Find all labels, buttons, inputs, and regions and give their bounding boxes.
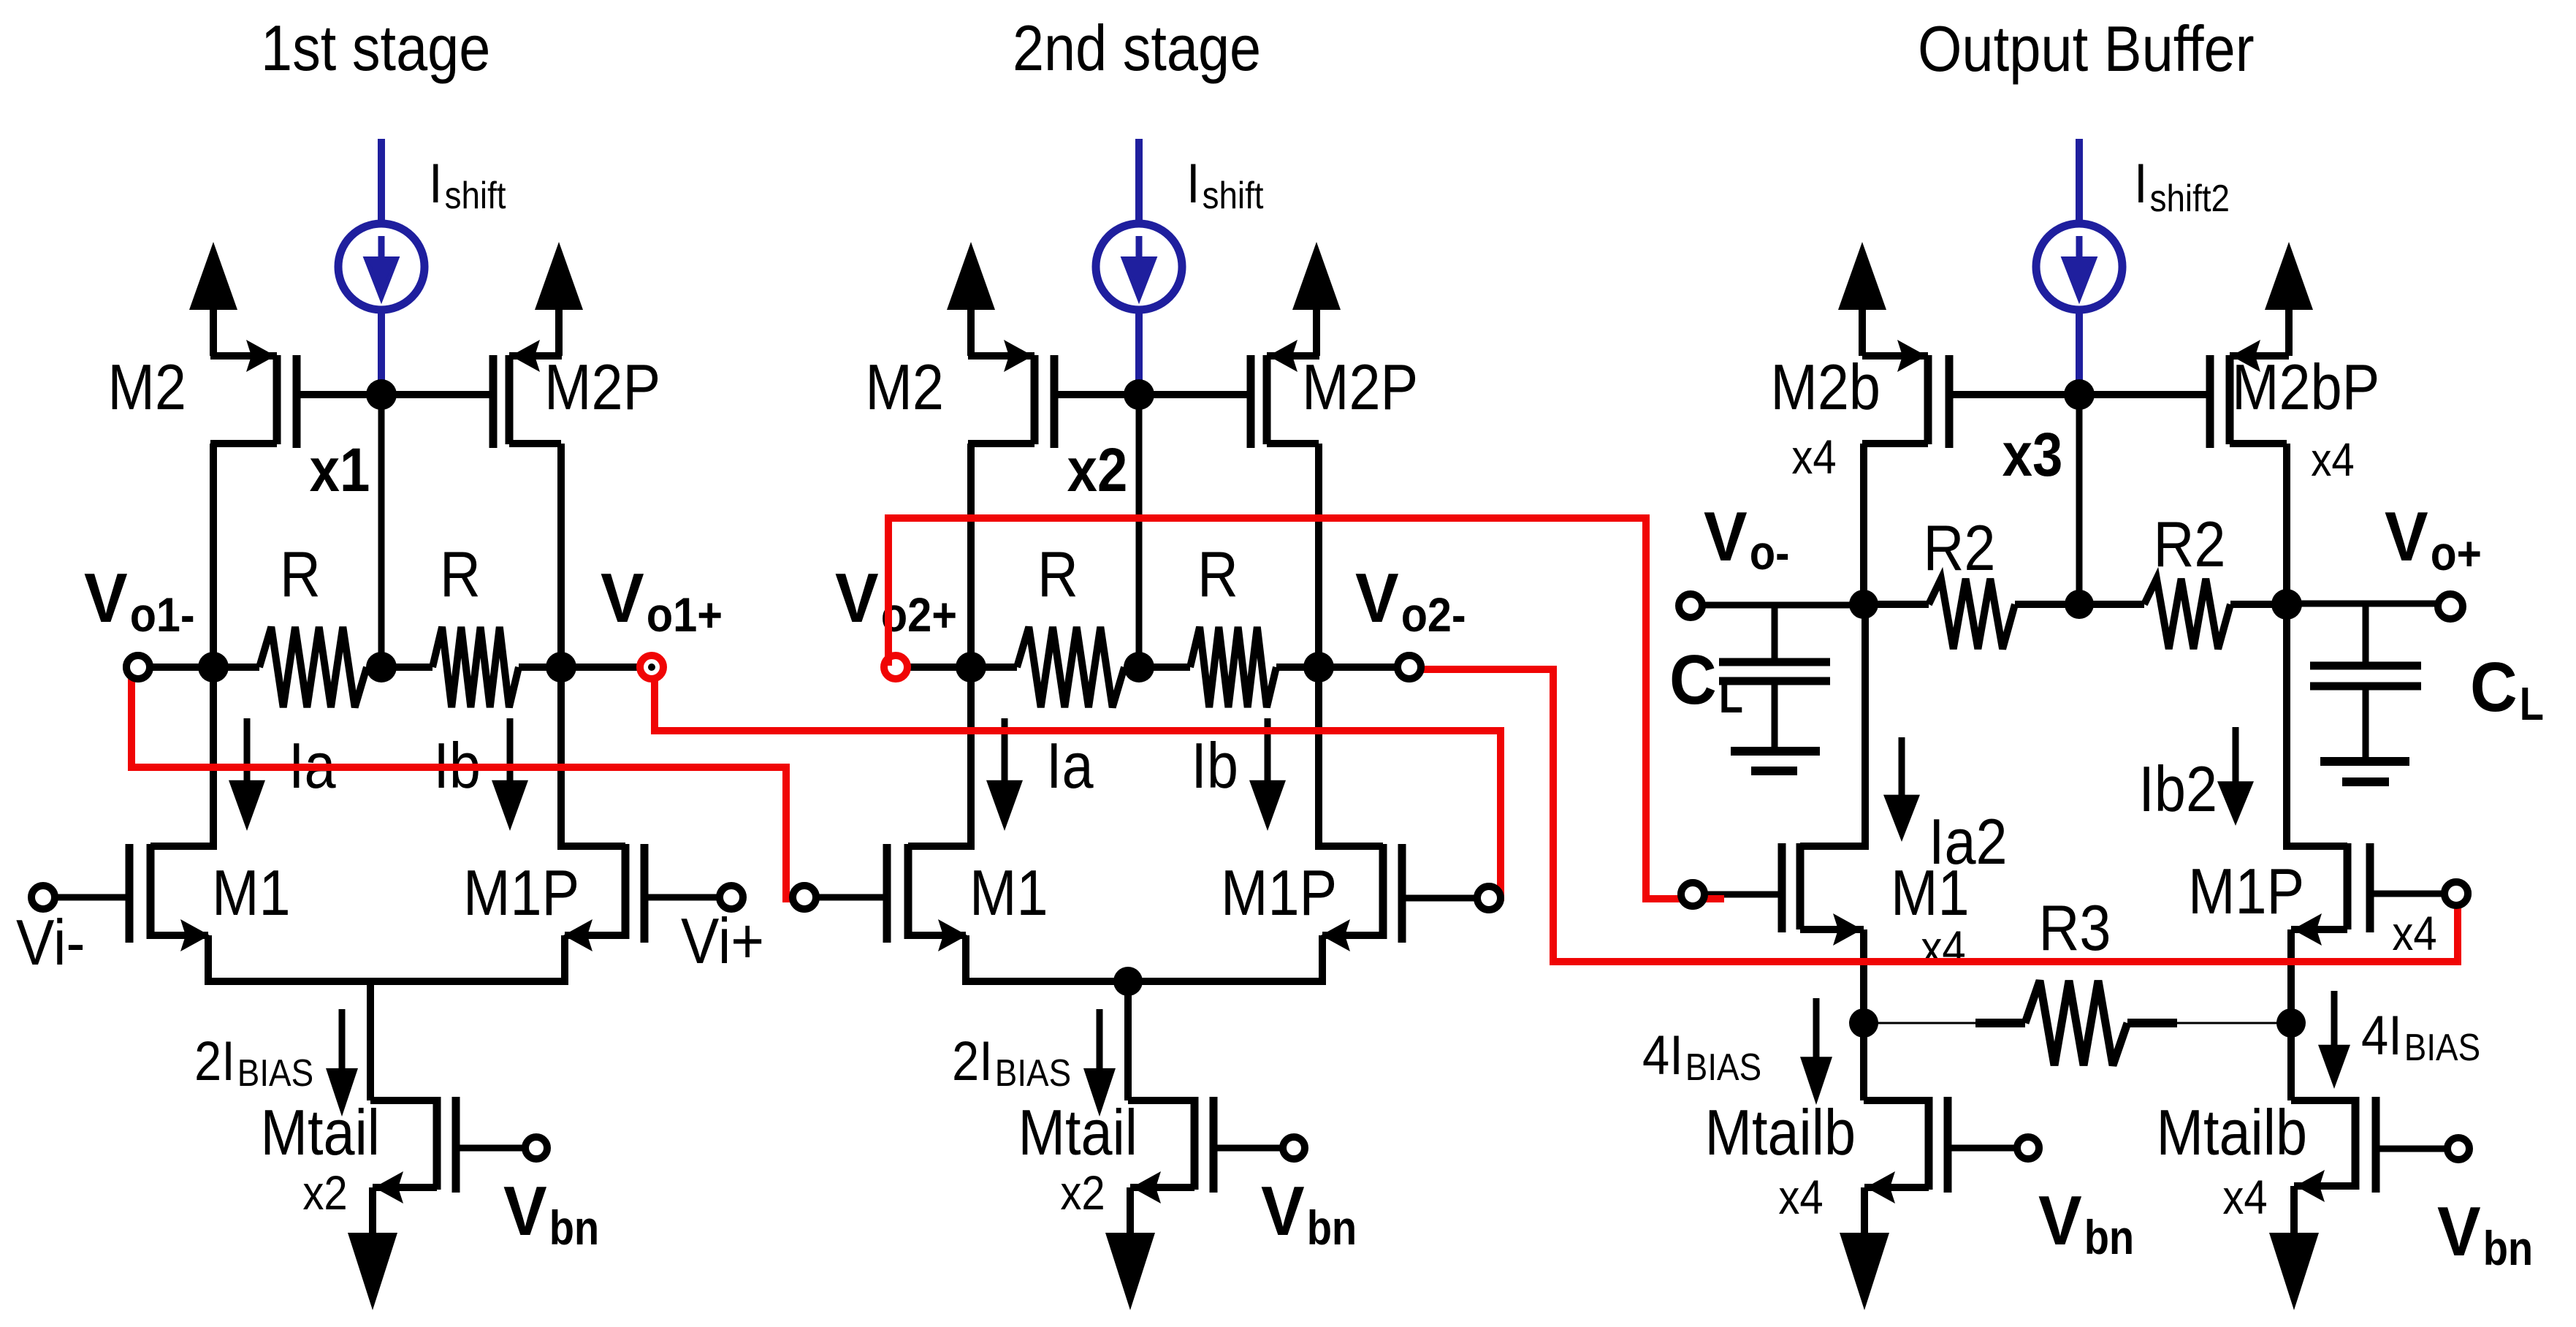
wire left rail down — [210, 667, 217, 850]
terminal Vo- — [1679, 594, 1864, 617]
svg-text:1st stage: 1st stage — [261, 12, 490, 84]
wire tail left (buffer) — [1864, 1023, 1929, 1100]
label Ib — [1191, 729, 1238, 802]
resistor R2 (right) — [2079, 579, 2287, 649]
svg-text:V: V — [1261, 1172, 1305, 1250]
svg-text:V: V — [503, 1172, 547, 1250]
resistor R (left) — [213, 627, 381, 707]
label Ia2 — [1929, 805, 2008, 878]
svg-text:x4: x4 — [2392, 906, 2436, 960]
label Vo2- — [1355, 559, 1466, 642]
wire tail right (buffer) — [2291, 1023, 2355, 1100]
capacitor CL (left) — [1719, 604, 1830, 751]
svg-text:L: L — [1719, 670, 1743, 723]
wire node to resistor tap — [378, 395, 385, 667]
label M1 — [969, 856, 1048, 929]
supply arrow right (M2P) — [1292, 242, 1341, 356]
label x4 (M2b) — [1791, 430, 1836, 484]
gate rail wire — [1054, 391, 1251, 398]
resistor R3 — [1864, 981, 2291, 1065]
label Vo1+ — [601, 559, 723, 642]
label Ia — [289, 729, 336, 802]
supply arrow right (M2P) — [535, 242, 583, 356]
terminal Vo1+ — [561, 655, 663, 679]
svg-text:shift2: shift2 — [2150, 178, 2230, 220]
transistor M2P — [493, 340, 562, 667]
svg-text:R: R — [1197, 538, 1238, 610]
svg-text:x2: x2 — [1067, 436, 1128, 504]
wire Vo2+ to buffer left input (red) — [888, 518, 1724, 906]
svg-text:M1P: M1P — [1221, 856, 1337, 929]
transistor M1 (buffer) — [1782, 843, 1865, 1023]
terminal Vo1- — [126, 655, 213, 679]
label Ib2 — [2138, 753, 2217, 825]
svg-text:2I: 2I — [194, 1030, 235, 1092]
svg-text:M1: M1 — [1891, 856, 1970, 929]
label M2P — [544, 351, 660, 423]
label R right — [440, 538, 481, 610]
label Vo- — [1704, 498, 1789, 579]
title 2nd stage — [1013, 12, 1261, 84]
svg-text:2nd stage: 2nd stage — [1013, 12, 1261, 84]
svg-text:V: V — [2038, 1182, 2082, 1260]
svg-text:R: R — [280, 538, 321, 610]
current arrow 4IBIAS (right) — [2318, 991, 2350, 1089]
label Vi- — [16, 906, 85, 978]
svg-text:x2: x2 — [302, 1166, 347, 1220]
svg-text:x4: x4 — [1921, 921, 1965, 975]
transistor M2 — [210, 340, 297, 667]
label R3 — [2039, 891, 2111, 964]
svg-text:M2: M2 — [107, 351, 186, 423]
svg-text:Ib2: Ib2 — [2138, 753, 2217, 825]
label 2IBIAS — [952, 1030, 1071, 1095]
node M1 source (buffer) — [1849, 1008, 1878, 1038]
label x1 — [310, 436, 370, 504]
svg-text:o1-: o1- — [130, 588, 195, 642]
node Vo+ rail junction — [2271, 589, 2302, 620]
svg-text:Mtail: Mtail — [261, 1096, 381, 1168]
transistor M2 — [968, 340, 1054, 667]
gate rail wire — [297, 391, 493, 398]
current arrow Ia2 — [1883, 737, 1920, 842]
label CL (right) — [2470, 648, 2544, 730]
svg-text:x2: x2 — [1060, 1166, 1105, 1220]
svg-text:o1+: o1+ — [647, 588, 723, 642]
svg-text:o-: o- — [1750, 525, 1790, 579]
node M1P source (buffer) — [2276, 1008, 2306, 1038]
transistor M1 — [129, 844, 213, 981]
svg-text:o2-: o2- — [1401, 588, 1466, 642]
wire Vo2- to buffer right input (red) — [1398, 655, 2468, 962]
svg-text:o+: o+ — [2431, 526, 2482, 580]
svg-text:Mtailb: Mtailb — [2157, 1096, 2308, 1168]
supply arrow left (M2b) — [1838, 242, 1886, 356]
ground arrow (buffer left) — [1840, 1233, 1889, 1310]
svg-text:bn: bn — [1307, 1201, 1357, 1255]
svg-text:I: I — [429, 153, 443, 215]
terminal input right (buffer) — [2370, 882, 2468, 905]
svg-text:shift: shift — [445, 175, 506, 217]
transistor M1 — [887, 844, 971, 981]
current arrow Ia — [986, 718, 1023, 831]
label Vo2+ — [835, 559, 957, 642]
label Vo1- — [84, 559, 195, 642]
svg-text:bn: bn — [2483, 1221, 2534, 1275]
current arrow Ib2 — [2217, 727, 2254, 826]
label Mtail — [261, 1096, 381, 1168]
capacitor CL (right) — [2310, 604, 2421, 761]
wire source rail — [962, 978, 1326, 985]
wire source rail — [205, 978, 568, 985]
transistor Mtail — [373, 1097, 525, 1233]
terminal Vbn gate (buffer left) — [2017, 1137, 2039, 1159]
label Vbn — [503, 1172, 599, 1255]
label M2bP — [2232, 351, 2379, 423]
label Ishift — [1186, 153, 1264, 217]
label R2 left — [1924, 512, 1996, 584]
node R2 centre tap — [2065, 590, 2094, 619]
label Mtailb (left) — [1705, 1096, 1856, 1168]
terminal Vbn gate (1st stage) — [525, 1137, 547, 1159]
svg-text:V: V — [2385, 498, 2428, 576]
terminal Vo2+ — [884, 655, 971, 679]
transistor M1P — [1319, 844, 1402, 981]
transistor Mtailb (left) — [1864, 1097, 2017, 1233]
svg-text:V: V — [2437, 1193, 2481, 1271]
label 4IBIAS (right) — [2361, 1005, 2480, 1069]
transistor M1P (buffer) — [2287, 843, 2370, 1023]
label M1 (buffer) — [1891, 856, 1970, 929]
current arrow Ib — [492, 718, 528, 831]
svg-text:V: V — [1355, 559, 1399, 637]
label M2 — [107, 351, 186, 423]
terminal Vbn gate (buffer right) — [2447, 1138, 2469, 1160]
ground arrow (buffer right) — [2269, 1233, 2319, 1310]
current arrow Ia — [229, 718, 265, 831]
supply arrow right (M2bP) — [2265, 242, 2313, 356]
svg-text:Vi+: Vi+ — [681, 905, 764, 977]
svg-text:M1: M1 — [969, 856, 1048, 929]
wire tail — [1128, 981, 1194, 1100]
wire left rail down — [967, 667, 975, 850]
current source Ishift2 — [2036, 139, 2122, 395]
resistor R (left) — [971, 627, 1139, 707]
current source Ishift (1st stage) — [338, 139, 424, 395]
node right rail junction — [1303, 652, 1334, 682]
svg-text:C: C — [2470, 648, 2518, 726]
terminal Vi+ — [644, 886, 743, 909]
node gate/shift junction — [366, 379, 397, 410]
wire right rail down (buffer) — [2283, 604, 2290, 850]
transistor M2P — [1251, 340, 1319, 667]
svg-text:2I: 2I — [952, 1030, 993, 1092]
svg-text:M2: M2 — [865, 351, 944, 423]
svg-text:Ia: Ia — [1046, 729, 1094, 802]
label CL (left) — [1669, 641, 1743, 723]
label 4IBIAS (left) — [1642, 1024, 1761, 1089]
wire right rail down — [557, 667, 565, 850]
terminal input left (buffer) — [1681, 883, 1782, 906]
svg-text:Vi-: Vi- — [16, 906, 85, 978]
svg-text:R: R — [1037, 538, 1078, 610]
ground arrow — [1105, 1233, 1155, 1310]
svg-text:R3: R3 — [2039, 891, 2111, 964]
label Vi+ — [681, 905, 764, 977]
svg-text:BIAS: BIAS — [2404, 1027, 2480, 1069]
node left rail junction — [956, 652, 986, 682]
node gate/Ishift2 junction — [2064, 379, 2095, 410]
label Ishift — [429, 153, 506, 217]
supply arrow left (M2) — [947, 242, 995, 356]
current arrow Ib — [1249, 718, 1286, 831]
svg-text:I: I — [1186, 153, 1200, 215]
svg-text:bn: bn — [549, 1201, 600, 1255]
svg-text:M2bP: M2bP — [2232, 351, 2379, 423]
node right rail junction — [546, 652, 576, 682]
label Ishift2 — [2134, 153, 2230, 220]
terminal input right (2nd stage) — [1402, 886, 1501, 910]
label x4 (M1 buffer) — [1921, 921, 1965, 975]
node gate/shift junction — [1124, 379, 1154, 410]
node resistor centre tap — [1124, 652, 1154, 682]
svg-text:R2: R2 — [2154, 508, 2226, 580]
terminal Vi- — [31, 886, 129, 909]
label Vbn (buffer left) — [2038, 1182, 2134, 1264]
svg-text:o2+: o2+ — [881, 588, 957, 642]
svg-text:x3: x3 — [2003, 420, 2063, 489]
svg-text:V: V — [1704, 498, 1748, 576]
svg-text:BIAS: BIAS — [237, 1052, 313, 1095]
terminal Vo2- — [1319, 655, 1421, 679]
wire right rail down — [1315, 667, 1322, 850]
label x4 (M1P buffer) — [2392, 906, 2436, 960]
current arrow 4IBIAS (left) — [1800, 998, 1832, 1105]
transistor M1P — [561, 844, 644, 981]
svg-text:V: V — [601, 559, 644, 637]
svg-text:BIAS: BIAS — [1685, 1046, 1761, 1089]
label Mtailb (right) — [2157, 1096, 2308, 1168]
label R2 right — [2154, 508, 2226, 580]
label M1P (buffer) — [2188, 855, 2304, 927]
gate rail wire (buffer) — [1949, 391, 2210, 398]
label x4 (Mtailb left) — [1778, 1170, 1823, 1224]
label Vo+ — [2385, 498, 2482, 580]
svg-text:R2: R2 — [1924, 512, 1996, 584]
label Ib — [433, 729, 481, 802]
ground CL (right) — [2320, 761, 2409, 782]
resistor R2 (left) — [1864, 579, 2079, 649]
label x2 multiplier — [302, 1166, 347, 1220]
wire node to resistor tap — [1136, 395, 1143, 667]
transistor Mtailb (right) — [2294, 1097, 2447, 1233]
transistor M2bP — [2210, 340, 2289, 604]
wire node to R2 tap — [2076, 395, 2083, 604]
ground arrow — [348, 1233, 397, 1310]
label Vbn — [1261, 1172, 1357, 1255]
svg-text:BIAS: BIAS — [995, 1052, 1071, 1095]
terminal input left (2nd stage) — [793, 886, 887, 909]
label x4 (Mtailb right) — [2222, 1170, 2267, 1224]
svg-text:x4: x4 — [1778, 1170, 1823, 1224]
svg-text:M2b: M2b — [1770, 351, 1880, 423]
label R right — [1197, 538, 1238, 610]
node resistor centre tap — [366, 652, 397, 682]
node left rail junction — [198, 652, 229, 682]
svg-text:C: C — [1669, 641, 1717, 719]
wire left rail down (buffer) — [1861, 604, 1869, 850]
svg-text:shift: shift — [1203, 175, 1264, 217]
svg-text:M2P: M2P — [1302, 351, 1418, 423]
label R left — [280, 538, 321, 610]
node Vo- rail junction — [1849, 590, 1878, 619]
svg-text:M1: M1 — [212, 856, 291, 929]
svg-text:bn: bn — [2084, 1210, 2135, 1264]
svg-text:R: R — [440, 538, 481, 610]
svg-text:Ib: Ib — [1191, 729, 1238, 802]
label M1 — [212, 856, 291, 929]
svg-text:V: V — [84, 559, 128, 637]
label x2 — [1067, 436, 1128, 504]
label x3 — [2003, 420, 2063, 489]
svg-text:4I: 4I — [2361, 1005, 2402, 1067]
label R left — [1037, 538, 1078, 610]
svg-text:x1: x1 — [310, 436, 370, 504]
label 2IBIAS — [194, 1030, 313, 1095]
ground CL (left) — [1731, 751, 1820, 771]
label M1P — [1221, 856, 1337, 929]
label Mtail — [1018, 1096, 1138, 1168]
label M2b — [1770, 351, 1880, 423]
label x2 multiplier — [1060, 1166, 1105, 1220]
resistor R (right) — [1139, 627, 1319, 707]
current source Ishift (2nd stage) — [1096, 139, 1182, 395]
resistor R (right) — [381, 627, 561, 707]
svg-text:x4: x4 — [2222, 1170, 2267, 1224]
wire Vo1- to 2nd stage left input (red) — [126, 655, 816, 909]
svg-text:4I: 4I — [1642, 1024, 1683, 1087]
svg-text:x4: x4 — [1791, 430, 1836, 484]
label M1P — [463, 856, 579, 929]
title 1st stage — [261, 12, 490, 84]
label Ia — [1046, 729, 1094, 802]
wire Vo1+ to 2nd stage right input (red) — [655, 680, 1501, 910]
svg-text:M2P: M2P — [544, 351, 660, 423]
terminal Vo+ — [2287, 594, 2463, 619]
label M2 — [865, 351, 944, 423]
current arrow 2IBIAS — [326, 1009, 358, 1117]
label Vbn (buffer right) — [2437, 1193, 2533, 1275]
node tail junction — [1113, 967, 1143, 996]
svg-text:Output Buffer: Output Buffer — [1918, 12, 2255, 85]
wire tail — [370, 981, 437, 1100]
label M2P — [1302, 351, 1418, 423]
current arrow 2IBIAS — [1083, 1009, 1116, 1117]
label x4 (M2bP) — [2311, 433, 2355, 486]
terminal Vbn gate (2nd stage) — [1283, 1137, 1305, 1159]
svg-text:x4: x4 — [2311, 433, 2355, 486]
transistor Mtail — [1130, 1097, 1283, 1233]
title Output Buffer — [1918, 12, 2255, 85]
svg-text:L: L — [2520, 677, 2544, 730]
svg-text:V: V — [835, 559, 879, 637]
supply arrow left (M2) — [189, 242, 237, 356]
svg-text:M1P: M1P — [463, 856, 579, 929]
svg-text:Mtail: Mtail — [1018, 1096, 1138, 1168]
svg-text:I: I — [2134, 153, 2148, 215]
transistor M2b — [1862, 340, 1949, 604]
svg-text:M1P: M1P — [2188, 855, 2304, 927]
svg-text:Mtailb: Mtailb — [1705, 1096, 1856, 1168]
